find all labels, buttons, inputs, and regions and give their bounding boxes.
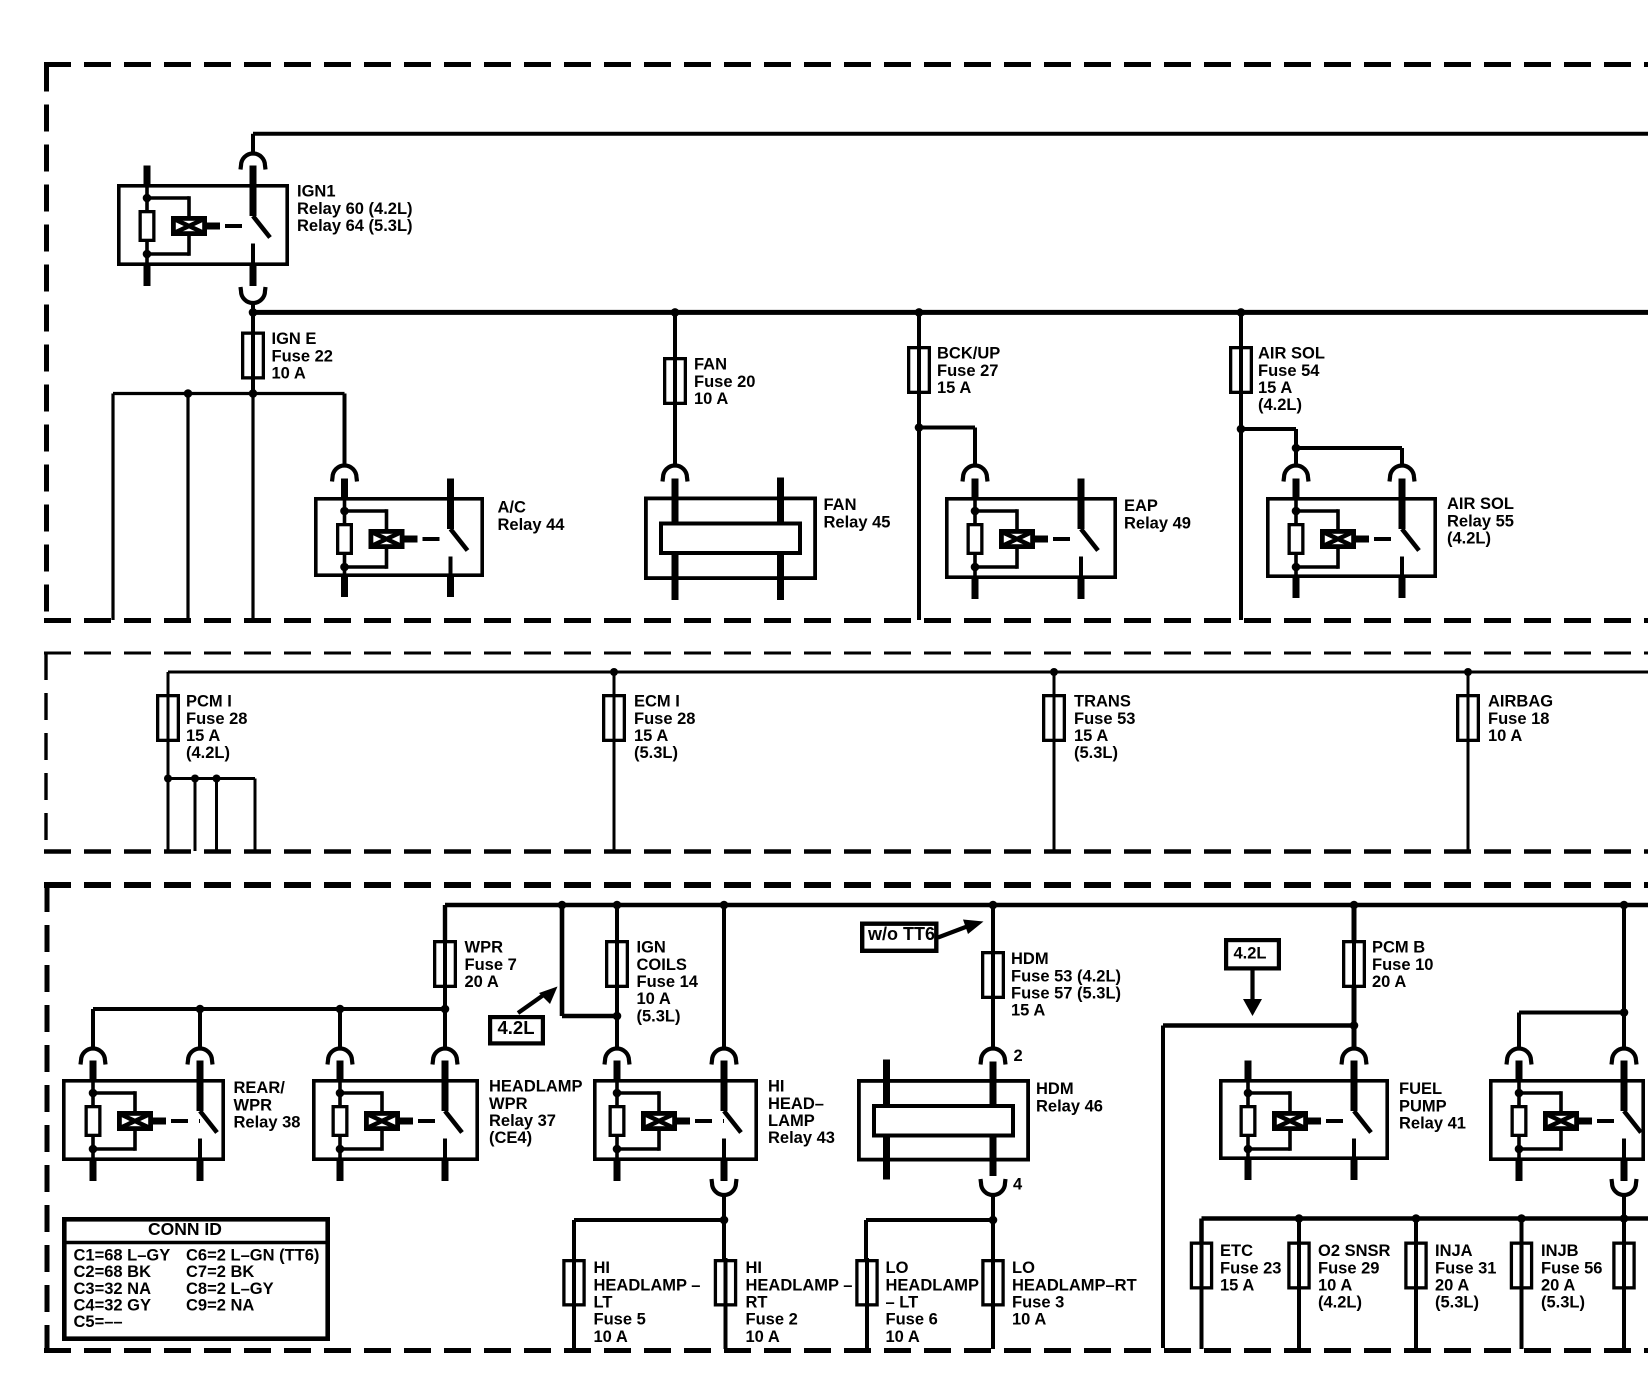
wire: INJB fuse output [1520, 1289, 1524, 1350]
relay FAN Relay 45 [646, 498, 815, 578]
svg-text:4.2L: 4.2L [1234, 945, 1267, 963]
wire: TRANS output [1053, 741, 1056, 851]
fuse ETC Fuse 23 15A [1200, 1241, 1204, 1291]
connector at AIR SOL relay coil pin [1284, 466, 1309, 482]
fuse block 1 dashed border (top) [44, 62, 1648, 67]
fuse BCK/UP Fuse 27 15A [917, 345, 921, 395]
connector at relay38 switch pin [188, 1049, 213, 1065]
fuse IGN E Fuse 22 10A [251, 331, 255, 381]
wire: PCM feed 1 [167, 779, 170, 852]
fuse IGN COILS Fuse 14 10A 5.3L [615, 939, 619, 989]
wire: AIR SOL fuse output down to border [1239, 393, 1243, 620]
wire: fuse14 output to relay43 coil [615, 987, 619, 1050]
junction: wpr rail / relay38 switch [196, 1005, 205, 1014]
wire: branch to AIR SOL relay pins [1241, 427, 1296, 431]
relay REAR/WPR Relay 38 [64, 1061, 223, 1182]
wire: rail to relay37 switch [443, 1009, 447, 1050]
wire: fuse2 output [724, 1306, 728, 1349]
wire: branch to right relay coil [1519, 1011, 1624, 1015]
connector at relay37 coil pin [328, 1049, 353, 1065]
connector at AIR SOL relay switch pin [1390, 466, 1415, 482]
wire: fuse3 output [991, 1306, 995, 1349]
connector at fuel pump relay switch pin [1342, 1049, 1367, 1065]
wire: rail to relay37 coil [338, 1009, 342, 1050]
wire: rail to fuse3 [991, 1220, 995, 1259]
junction: bus2 / ECM I fuse [610, 668, 618, 676]
wire: hi-beam fuse rail [574, 1218, 724, 1222]
wire: engine harness feed (horizontal + drop) [1163, 1023, 1354, 1028]
fuse block 3 dashed border (left) [45, 885, 50, 1351]
fuse AIRBAG Fuse 18 10A [1467, 672, 1470, 694]
connector at right relay coil pin [1507, 1049, 1532, 1065]
junction: bus / AIR SOL fuse [1237, 308, 1246, 317]
fuse block 1 dashed border (bottom) [44, 618, 1648, 623]
junction: PCM B output / engine harness feed [1350, 1021, 1359, 1030]
fuse PCM B Fuse 10 20A [1352, 939, 1356, 989]
wire: main ignition bus (box 1) [253, 310, 1648, 315]
fuse INJB Fuse 56 20A 5.3L [1520, 1219, 1524, 1242]
connector at right relay switch pin [1612, 1049, 1637, 1065]
connector at HDM relay pin 4 [981, 1179, 1006, 1195]
connector at A/C relay coil pin [332, 466, 357, 482]
junction: wpr rail / relay37 coil [336, 1005, 345, 1014]
relay HEADLAMP WPR Relay 37 (CE4) [314, 1061, 477, 1182]
wire: BCK/UP fuse output down to border [917, 393, 921, 620]
junction: PCM rail c [213, 775, 221, 783]
wire: bus3 to right relay (vertical) [1622, 905, 1626, 1050]
connector at relay38 coil pin [81, 1049, 106, 1065]
wire: branch down to module (left) [111, 394, 114, 621]
wire: ignition bus (box 3) [445, 903, 1648, 907]
junction: PCM rail b [191, 775, 199, 783]
wire: relay43 output to hi-beam fuses [722, 1193, 726, 1220]
wire: 4.2L branch to ign coils [560, 905, 565, 1016]
fuse block 3 dashed border (top) [44, 882, 1648, 888]
connector at HDM relay pin 2 [981, 1049, 1006, 1065]
wire: bus to BCK/UP fuse [917, 312, 921, 346]
connector at FAN relay pin (left) [663, 466, 688, 482]
junction: bus / IGN1 output [249, 308, 258, 317]
fuse INJA Fuse 31 20A 5.3L [1414, 1219, 1418, 1242]
relay A/C Relay 44 [316, 479, 482, 598]
junction: bus3 / IGN COILS fuse [613, 901, 622, 910]
fuse HI HEADLAMP-LT Fuse 5 10A [572, 1258, 576, 1308]
svg-text:4.2L: 4.2L [498, 1017, 535, 1038]
wire: WPR fuse output rail [443, 987, 447, 1009]
connector at EAP relay coil pin [963, 466, 988, 482]
wire: PCM feed 3 [215, 779, 218, 852]
connector at relay37 switch pin [433, 1049, 458, 1065]
wire: IGN E fuse output rail [113, 392, 345, 395]
fuse HI HEADLAMP-RT Fuse 2 10A [724, 1258, 728, 1308]
wire: right relay output to injection fuse rail [1622, 1193, 1626, 1219]
junction: PCM rail a [164, 775, 172, 783]
junction: 4.2L branch / fuse14 output [613, 1012, 622, 1021]
connector at relay43 switch pin [712, 1049, 737, 1065]
junction: bus3 / 4.2L ign-coils branch [558, 901, 567, 910]
tag w/o TT6 with arrow [862, 920, 983, 951]
junction: AIR SOL relay coil/switch split [1292, 444, 1301, 453]
wire: bus3 to PCM B fuse [1352, 905, 1357, 940]
wire: bus to AIR SOL fuse [1239, 312, 1243, 346]
wire: bus3 to IGN COILS fuse [615, 905, 619, 940]
junction: rail / INJA fuse [1412, 1214, 1421, 1223]
connector at relay43 switch output [712, 1179, 737, 1195]
wire: PCM B output to fuel pump relay switch [1352, 987, 1357, 1050]
relay HDM Relay 46 [859, 1081, 1028, 1160]
wire: IGN1 switch output to bus [251, 301, 255, 312]
wire: fuse5 output [572, 1306, 576, 1349]
wire: AIRBAG output [1467, 741, 1470, 851]
svg-text:CONN ID: CONN ID [148, 1219, 222, 1239]
fuse TRANS Fuse 53 15A 5.3L [1053, 672, 1056, 694]
wire: bus to FAN fuse [673, 312, 677, 357]
fuse O2 SNSR Fuse 29 10A 4.2L [1297, 1219, 1301, 1242]
junction: bus2 / AIRBAG fuse [1464, 668, 1472, 676]
junction: bus / FAN fuse [671, 308, 680, 317]
wire: FAN fuse to FAN relay pin [673, 404, 677, 467]
wire: branch down to module (mid) [186, 394, 189, 621]
fuse block 2 dashed border (bottom) [44, 849, 1648, 853]
connector at IGN1 pin 30 (top) [241, 154, 266, 170]
junction: AIR SOL branch [1237, 425, 1246, 434]
wire: rail to relay38 switch [198, 1009, 202, 1050]
wire: PCM feed 4 [254, 779, 257, 852]
fuse FAN Fuse 20 10A [673, 356, 677, 406]
wire: rail to relay38 coil [91, 1009, 95, 1050]
wire: PCM I output rail [167, 741, 170, 779]
svg-text:4: 4 [1013, 1176, 1023, 1194]
fuse LO HEADLAMP-RT Fuse 3 10A [991, 1258, 995, 1308]
wire: IGN1 relay switch feed (top horizontal) [253, 132, 1648, 136]
relay AIR SOL Relay 55 (4.2L) [1268, 479, 1435, 599]
wire: O2 fuse output [1297, 1289, 1301, 1350]
junction: wpr rail / relay37 switch [441, 1005, 450, 1014]
wire: INJA fuse output [1414, 1289, 1418, 1350]
relay EAP Relay 49 [947, 479, 1115, 600]
fuse WPR Fuse 7 20A [443, 939, 447, 989]
fuse block 2 dashed border (left) [44, 653, 47, 852]
relay (right, unlabeled) [1491, 1061, 1643, 1182]
wire: PCM feed 2 [194, 779, 197, 852]
wire: ECM I output [613, 741, 616, 851]
connector at right relay switch output [1612, 1179, 1637, 1195]
wire: injection fuse rail [1202, 1216, 1648, 1221]
wire: ETC fuse output [1200, 1289, 1204, 1350]
fuse AIR SOL Fuse 54 15A 4.2L [1239, 345, 1243, 395]
junction: bus / BCK-UP fuse [915, 308, 924, 317]
wire: bus to IGN E fuse [251, 312, 255, 393]
connector at relay43 coil pin [605, 1049, 630, 1065]
fuse block 1 dashed border (left) [44, 65, 49, 621]
fuse block 3 dashed border (bottom) [44, 1348, 1648, 1353]
fuse HDM Fuse 53(4.2L)/57(5.3L) 15A [991, 950, 995, 1000]
tag 4.2L (left) with arrow [490, 987, 557, 1044]
connector ID table [62, 1219, 330, 1339]
wire: bus3 to HDM fuse [991, 905, 995, 951]
junction: bus3 / PCM B fuse [1350, 901, 1359, 910]
junction: bus3 / right relay feed [1620, 901, 1629, 910]
junction: hi-beam rail / fuse2 [720, 1216, 729, 1225]
wire: lo-beam fuse rail [866, 1218, 993, 1222]
tag 4.2L (right) with arrow [1226, 940, 1279, 1016]
junction: rail / fuse 22 output [249, 389, 258, 398]
wire: right fuse output [1622, 1289, 1626, 1350]
junction: bus3 / HDM fuse [989, 901, 998, 910]
junction: lo-beam rail / fuse3 [989, 1216, 998, 1225]
fuse PCM I Fuse 28 15A 4.2L [167, 693, 170, 743]
fuse (right edge, unlabeled) [1622, 1219, 1626, 1242]
fuse LO HEADLAMP-LT Fuse 6 10A [865, 1258, 869, 1308]
junction: right relay coil/switch split [1620, 1008, 1629, 1017]
wire: fuse6 output [865, 1306, 869, 1349]
relay IGN1 (Relay 60 4.2L / Relay 64 5.3L) [119, 166, 287, 287]
connector at IGN1 pin 87 (bottom) [241, 287, 266, 303]
fuse block 2 dashed border (top) [44, 652, 1648, 655]
wire: battery bus (box 2) [168, 671, 1648, 674]
wire: HDM pin4 output to lo-beam fuses [991, 1193, 995, 1220]
wire: bus3 to relay43 switch [722, 905, 726, 1050]
wire: branch to EAP relay coil [919, 426, 975, 430]
junction: BCK/UP branch to EAP relay [915, 423, 924, 432]
junction: rail / INJB fuse [1517, 1214, 1526, 1223]
junction: bus2 / TRANS fuse [1050, 668, 1058, 676]
wire: branch down to module (right) [251, 394, 254, 621]
junction: rail / O2 fuse [1295, 1214, 1304, 1223]
junction: rail / branch 1 [184, 389, 193, 398]
junction: rail / right fuse [1620, 1214, 1629, 1223]
svg-text:2: 2 [1014, 1047, 1023, 1065]
relay HI HEADLAMP Relay 43 [595, 1061, 756, 1182]
wire: rail to fuse2 [722, 1220, 726, 1259]
wire: HDM fuse output to relay46 pin 2 [991, 998, 995, 1050]
junction: bus3 / HI headlamp relay switch [720, 901, 729, 910]
relay FUEL PUMP Relay 41 [1221, 1061, 1387, 1181]
svg-text:w/o TT6: w/o TT6 [867, 924, 935, 944]
fuse ECM I Fuse 28 15A 5.3L [613, 672, 616, 694]
wire: rail to A/C relay coil [343, 394, 347, 468]
